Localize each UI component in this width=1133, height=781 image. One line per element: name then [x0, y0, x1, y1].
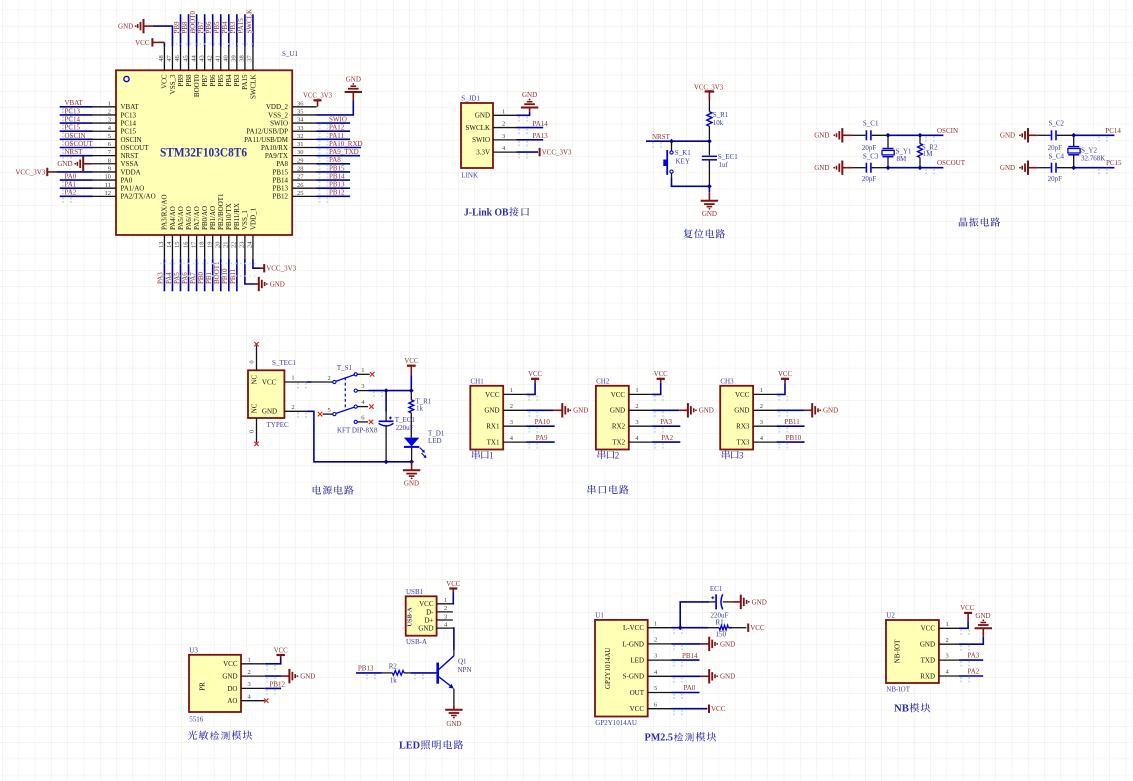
svg-text:1: 1 — [946, 621, 949, 628]
svg-text:USB-A: USB-A — [407, 607, 414, 627]
svg-text:GND: GND — [346, 76, 361, 84]
power VCC at MCU pin 48 — [135, 38, 164, 47]
MCU bottom pin stubs — [164, 235, 253, 259]
connector CH1 body — [470, 386, 503, 450]
svg-text:GND: GND — [720, 673, 735, 681]
MCU left pin numbers 1-12 — [105, 100, 112, 197]
svg-text:VDD_1: VDD_1 — [249, 207, 257, 230]
svg-text:PA9_TXD: PA9_TXD — [329, 148, 359, 156]
svg-text:GND: GND — [610, 407, 625, 415]
MCU top pin numbers 48-37 — [158, 55, 254, 62]
CH3 pin stubs and numbers — [753, 387, 776, 442]
wire OSCOUT — [886, 159, 966, 174]
svg-text:DO: DO — [227, 685, 237, 693]
svg-text:2: 2 — [615, 450, 620, 460]
svg-text:RXD: RXD — [920, 672, 935, 680]
svg-text:VCC: VCC — [630, 705, 645, 713]
wire TEC1 GND pin 2 down to bottom rail — [284, 404, 411, 462]
MCU bottom pin names (rotated) — [161, 193, 258, 230]
wire + net label PB10 (CH3 pin 4) — [776, 434, 804, 449]
power VCC_3V3 at MCU pin 36 — [303, 93, 333, 107]
svg-text:2: 2 — [444, 605, 447, 612]
svg-text:PC14: PC14 — [1105, 127, 1121, 135]
svg-text:LINK: LINK — [461, 172, 478, 180]
svg-text:D+: D+ — [424, 616, 433, 624]
svg-text:SWCLK: SWCLK — [466, 124, 491, 132]
svg-text:R2: R2 — [389, 663, 398, 671]
svg-text:GND: GND — [522, 91, 537, 99]
svg-text:VCC: VCC — [419, 600, 434, 608]
svg-text:3: 3 — [510, 419, 513, 426]
wire + net label PA4 (MCU pin 14) — [165, 259, 173, 292]
svg-text:VCC_3V3: VCC_3V3 — [303, 93, 333, 100]
svg-text:2: 2 — [502, 121, 505, 128]
wire + net label BOOT0 (MCU pin 44) — [189, 10, 197, 46]
svg-text:PA4: PA4 — [165, 272, 173, 284]
svg-text:10k: 10k — [713, 119, 724, 127]
USB1 pin stubs and numbers — [437, 597, 453, 628]
svg-text:PA12: PA12 — [329, 124, 345, 132]
svg-text:PA9/TX: PA9/TX — [265, 152, 288, 160]
svg-text:PA0: PA0 — [121, 176, 133, 184]
ground at J-Link pin 1 — [517, 91, 539, 122]
svg-text:S_C1: S_C1 — [863, 119, 879, 127]
svg-text:GND: GND — [720, 640, 735, 648]
component U3 photoresistor module body — [189, 655, 241, 712]
svg-text:GND: GND — [823, 407, 838, 415]
svg-text:TXD: TXD — [921, 657, 935, 665]
wire NRST net — [646, 133, 712, 148]
svg-text:NB: NB — [894, 703, 910, 715]
svg-text:T_EC1: T_EC1 — [395, 416, 416, 424]
svg-text:PC14: PC14 — [121, 119, 137, 127]
wire + net label OSCOUT (MCU pin 6) — [60, 140, 94, 154]
svg-text:LED: LED — [399, 740, 420, 752]
wire + net label PC13 (MCU pin 2) — [60, 107, 93, 121]
wire + net label PC14 (MCU pin 3) — [60, 115, 93, 129]
svg-text:NB-IOT: NB-IOT — [894, 639, 902, 663]
svg-text:PA5/AO: PA5/AO — [177, 206, 185, 230]
svg-text:3: 3 — [654, 653, 657, 660]
resistor S_R2 1M — [918, 133, 938, 170]
svg-text:PB11/RX: PB11/RX — [233, 203, 241, 230]
wire + net label PB12 (MCU pin 25) — [317, 189, 351, 203]
wire + net label PA2 (CH2 pin 4) — [652, 434, 680, 449]
svg-text:GND: GND — [752, 598, 767, 606]
svg-text:PB13: PB13 — [329, 181, 345, 189]
svg-text:D-: D- — [426, 608, 434, 616]
svg-text:GND: GND — [814, 164, 829, 172]
wire + net label PB12 (U3 pin 3 DO) — [265, 681, 286, 695]
wire USB1 pin 4 to Q1 collector — [453, 628, 454, 650]
wire + net label PA3 (CH2 pin 3) — [652, 418, 680, 433]
svg-text:S_R1: S_R1 — [713, 111, 729, 119]
switch T_S1 KFT DIP-8X8 — [312, 364, 370, 423]
ground at U2 pin 2 — [959, 612, 992, 650]
svg-text:GP2Y1014AU: GP2Y1014AU — [604, 647, 612, 689]
svg-text:RX1: RX1 — [486, 423, 500, 431]
ground at U3 pin 2 — [265, 669, 316, 683]
svg-text:T_S1: T_S1 — [337, 364, 353, 372]
wire + net label VBAT (MCU pin 1) — [60, 99, 93, 113]
svg-text:PA5: PA5 — [173, 272, 181, 284]
svg-text:GND: GND — [475, 112, 490, 120]
svg-text:OSCIN: OSCIN — [65, 132, 86, 140]
ground (crystal C3) — [814, 161, 852, 175]
svg-text:S_TEC1: S_TEC1 — [272, 359, 297, 367]
component U2 NB-IOT body — [886, 620, 939, 683]
wire PC14 — [1071, 127, 1121, 142]
connector S_TEC1 TYPEC body — [248, 370, 284, 418]
wire + net label PB11 (CH3 pin 3) — [776, 418, 804, 433]
svg-text:PB14: PB14 — [329, 172, 345, 180]
svg-text:1: 1 — [248, 657, 251, 664]
svg-text:PC15: PC15 — [65, 124, 81, 132]
svg-text:CH3: CH3 — [720, 378, 734, 386]
svg-text:PB0/AO: PB0/AO — [201, 206, 209, 230]
svg-text:OSCOUT: OSCOUT — [65, 140, 94, 148]
CH2 pin stubs and numbers — [629, 387, 652, 442]
svg-text:1k: 1k — [416, 404, 424, 412]
svg-text:VBAT: VBAT — [65, 99, 84, 107]
power VCC at U3 pin 1 — [265, 647, 288, 670]
svg-text:2: 2 — [760, 403, 763, 410]
wire + net label PA5 (MCU pin 15) — [173, 259, 181, 292]
svg-text:2: 2 — [510, 403, 513, 410]
ground (power circuit) — [403, 462, 420, 488]
svg-text:VCC: VCC — [274, 647, 288, 654]
ground at CH2 pin 2 — [652, 403, 714, 417]
ground at MCU pin 47 VSS_3 — [118, 19, 172, 47]
title light detection module — [188, 731, 197, 740]
svg-text:VCC: VCC — [735, 391, 750, 399]
capacitor T_EC1 220uF polarized — [379, 391, 416, 465]
svg-text:S_C4: S_C4 — [1049, 152, 1065, 160]
svg-text:GND: GND — [418, 625, 433, 633]
svg-text:VSS_3: VSS_3 — [169, 74, 177, 94]
svg-text:EC1: EC1 — [710, 585, 723, 593]
wire R1 to NRST node — [708, 126, 710, 141]
power VCC at R1 — [748, 624, 765, 633]
wire + net label PB10 (MCU pin 21) — [221, 259, 229, 292]
svg-text:PA6/AO: PA6/AO — [185, 206, 193, 230]
power VCC at U2 pin 1 — [959, 605, 975, 635]
connector S_JD1 J-Link body — [461, 103, 493, 168]
MCU left pin stubs — [93, 107, 116, 197]
capacitor S_C2 20pF — [1038, 119, 1074, 152]
svg-text:PC13: PC13 — [121, 111, 137, 119]
svg-text:VCC: VCC — [161, 74, 169, 89]
wire + net label PA3 (MCU pin 13) — [157, 259, 165, 292]
svg-text:NRST: NRST — [121, 152, 140, 160]
wire + net label PA1 (MCU pin 11) — [60, 181, 93, 195]
svg-text:3: 3 — [760, 419, 763, 426]
svg-text:NB-IOT: NB-IOT — [886, 686, 910, 694]
resistor R1 150 — [709, 619, 747, 639]
svg-text:VCC: VCC — [711, 705, 726, 713]
svg-text:PC15: PC15 — [121, 128, 137, 136]
ground (reset) — [701, 184, 718, 218]
svg-text:20pF: 20pF — [1048, 175, 1063, 183]
title LED lighting circuit — [399, 740, 463, 752]
resistor R2 1k on base wire + net label PB13 — [356, 663, 436, 685]
wire + net label PA0 (U1 pin 5) — [672, 684, 700, 699]
LED arrows — [420, 448, 427, 458]
svg-text:PB3: PB3 — [233, 74, 241, 87]
svg-text:PR: PR — [199, 682, 207, 691]
svg-text:PB11: PB11 — [785, 418, 801, 426]
svg-text:PB12: PB12 — [272, 193, 288, 201]
svg-text:5: 5 — [654, 685, 657, 692]
svg-text:RX2: RX2 — [612, 423, 626, 431]
label serial port 1 — [472, 450, 494, 460]
svg-text:0: 0 — [249, 360, 256, 363]
svg-text:PA2/TX/AO: PA2/TX/AO — [121, 193, 156, 201]
capacitor S_C1 20pF — [852, 119, 888, 152]
title J-Link OB interface — [464, 207, 529, 219]
wire switch to ground node — [672, 178, 710, 186]
svg-text:PA8: PA8 — [276, 160, 288, 168]
capacitor EC1 220uF polarized — [709, 585, 732, 619]
svg-text:PB13: PB13 — [358, 665, 374, 673]
svg-text:PA12/USB/DP: PA12/USB/DP — [246, 128, 288, 136]
power VCC_3V3 at MCU pin 9 VDDA — [15, 168, 93, 177]
svg-text:VCC: VCC — [960, 605, 974, 612]
power VCC at USB1 pin 1 — [446, 581, 460, 604]
svg-text:GND: GND — [118, 23, 133, 31]
svg-text:PA3/RX/AO: PA3/RX/AO — [161, 194, 169, 230]
svg-text:PA10/RX: PA10/RX — [261, 144, 288, 152]
power VCC (power circuit) — [404, 358, 418, 391]
J-Link pin stubs and numbers — [493, 108, 517, 152]
svg-text:1: 1 — [291, 375, 294, 382]
svg-text:GND: GND — [814, 132, 829, 140]
svg-text:PA1: PA1 — [65, 181, 77, 189]
svg-text:PB4: PB4 — [225, 74, 233, 87]
capacitor S_EC1 1uf — [702, 141, 738, 186]
no-connect at U3 pin 4 AO — [264, 699, 268, 703]
svg-text:PB9: PB9 — [177, 74, 185, 87]
svg-text:S_K1: S_K1 — [675, 149, 691, 157]
svg-text:GND: GND — [1000, 132, 1015, 140]
wire + net label PB14 (MCU pin 27) — [317, 172, 351, 186]
svg-text:PA3: PA3 — [660, 418, 672, 426]
svg-text:GND: GND — [702, 210, 717, 218]
svg-text:PC15: PC15 — [1106, 159, 1122, 167]
svg-text:PB12: PB12 — [329, 189, 345, 197]
svg-text:PB7: PB7 — [201, 74, 209, 87]
svg-text:USB1: USB1 — [406, 588, 424, 596]
wire OSCIN — [886, 127, 958, 142]
svg-text:VCC: VCC — [262, 378, 277, 386]
svg-text:SWCLK: SWCLK — [245, 9, 253, 34]
ground at MCU pin 35 VSS_2 — [317, 76, 363, 115]
power VCC at U1 pin 6 — [672, 705, 726, 716]
power VCC at CH3 pin 1 — [776, 371, 792, 401]
ground (crystal C2) — [1000, 128, 1038, 142]
svg-text:3: 3 — [361, 383, 364, 390]
svg-text:NPN: NPN — [458, 666, 472, 674]
svg-text:GND: GND — [57, 160, 72, 168]
wire VCC_3V3 to R1 — [708, 100, 710, 112]
svg-text:GND: GND — [262, 408, 277, 416]
svg-text:PA8: PA8 — [329, 156, 341, 164]
svg-text:PA0: PA0 — [65, 172, 77, 180]
svg-text:1: 1 — [510, 387, 513, 394]
wire + net label PA15 (MCU pin 38) — [237, 14, 245, 46]
svg-text:VCC_3V3: VCC_3V3 — [15, 168, 45, 176]
svg-text:PA10: PA10 — [535, 418, 551, 426]
capacitor S_C4 20pF — [1038, 152, 1074, 183]
no-ERC marks on switch pins — [318, 372, 375, 424]
svg-text:3: 3 — [739, 450, 744, 460]
svg-text:GND: GND — [300, 673, 315, 681]
svg-text:J-Link OB: J-Link OB — [464, 207, 509, 219]
svg-text:2: 2 — [654, 637, 657, 644]
svg-text:S_Y2: S_Y2 — [1081, 147, 1097, 155]
svg-text:2: 2 — [291, 404, 294, 411]
CH1 pin stubs and numbers — [503, 387, 526, 442]
ground (crystal C1) — [814, 128, 852, 142]
svg-text:PA7: PA7 — [189, 272, 197, 284]
svg-text:OUT: OUT — [630, 689, 645, 697]
svg-text:VSSA: VSSA — [121, 160, 139, 168]
MCU right pin numbers 36-25 — [297, 100, 304, 197]
svg-text:S-GND: S-GND — [623, 673, 644, 681]
svg-text:VCC: VCC — [223, 660, 238, 668]
svg-text:VCC: VCC — [485, 391, 500, 399]
svg-text:PB0: PB0 — [197, 271, 205, 284]
wire + net label PA3 (U2 pin 3) — [959, 652, 984, 667]
svg-text:VCC: VCC — [750, 624, 765, 632]
svg-text:OSCOUT: OSCOUT — [121, 144, 150, 152]
svg-text:20pF: 20pF — [862, 175, 877, 183]
power VCC at CH2 pin 1 — [652, 371, 668, 401]
svg-text:GP2Y1014AU: GP2Y1014AU — [595, 719, 637, 727]
wire switch pin 3 to VCC column — [369, 388, 414, 397]
svg-text:PB14: PB14 — [272, 176, 288, 184]
svg-text:LED: LED — [428, 437, 442, 445]
MCU U1 STM32F103C8T6 body — [116, 70, 292, 235]
MCU right pin names — [244, 103, 289, 201]
svg-text:S_U1: S_U1 — [282, 50, 298, 58]
svg-text:TX2: TX2 — [612, 439, 625, 447]
svg-text:OSCOUT: OSCOUT — [937, 159, 966, 167]
svg-text:PA6: PA6 — [181, 272, 189, 284]
title serial circuit — [588, 485, 596, 494]
capacitor S_C3 20pF — [852, 152, 888, 183]
svg-text:3.3V: 3.3V — [476, 149, 490, 157]
svg-text:PB8: PB8 — [185, 74, 193, 87]
svg-text:SWCLK: SWCLK — [249, 75, 257, 100]
svg-text:1: 1 — [635, 387, 638, 394]
svg-text:PA4/AO: PA4/AO — [169, 206, 177, 230]
wire + net label PA2 (U2 pin 4) — [959, 668, 984, 683]
MCU top pin names (rotated) — [161, 74, 258, 99]
svg-text:150: 150 — [716, 631, 727, 639]
wire + net label BOOT1 (MCU pin 20) — [213, 259, 221, 292]
svg-text:PA14: PA14 — [533, 120, 549, 128]
svg-text:VCC_3V3: VCC_3V3 — [542, 149, 572, 157]
MCU left pin names — [121, 103, 156, 201]
U1 pin stubs and numbers — [648, 620, 672, 708]
wire TEC1 VCC pin 1 to switch — [284, 375, 311, 389]
wire + net label PB8 (MCU pin 45) — [181, 14, 189, 46]
svg-text:GND: GND — [734, 407, 749, 415]
title NB module — [894, 703, 930, 715]
svg-text:PB14: PB14 — [682, 652, 698, 660]
svg-text:PB1: PB1 — [205, 271, 213, 284]
ground at MCU pin 23 VSS_1 — [245, 259, 285, 292]
svg-text:VSS_1: VSS_1 — [241, 210, 249, 230]
svg-text:PB6: PB6 — [209, 74, 217, 87]
svg-text:GND: GND — [484, 407, 499, 415]
svg-text:3: 3 — [635, 419, 638, 426]
svg-text:220uF: 220uF — [396, 424, 414, 432]
svg-text:GND: GND — [975, 612, 990, 620]
svg-text:0: 0 — [249, 430, 256, 433]
svg-text:S_C3: S_C3 — [863, 152, 879, 160]
svg-text:3: 3 — [248, 681, 251, 688]
power VCC at CH1 pin 1 — [527, 371, 543, 401]
ground at U1 pin 2 — [672, 637, 736, 651]
wire + net label PB7 (MCU pin 43) — [197, 14, 205, 46]
svg-text:GND: GND — [222, 673, 237, 681]
svg-text:RX3: RX3 — [736, 423, 750, 431]
svg-text:PA13: PA13 — [533, 132, 549, 140]
ground (LED circuit) — [445, 705, 462, 728]
svg-text:STM32F103C8T6: STM32F103C8T6 — [160, 145, 247, 159]
svg-text:PM2.5: PM2.5 — [645, 732, 674, 744]
ground at U1 pin 4 — [672, 669, 736, 683]
svg-text:GND: GND — [1000, 164, 1015, 172]
wire + net label PA0 (MCU pin 10) — [60, 172, 93, 186]
svg-text:PA2: PA2 — [968, 668, 980, 676]
wire + net label PB0 (MCU pin 18) — [197, 259, 205, 292]
power VCC_3V3 at J-Link pin 4 — [517, 148, 573, 159]
svg-text:LED: LED — [630, 657, 644, 665]
svg-text:VCC: VCC — [404, 358, 418, 365]
svg-text:PA10_RXD: PA10_RXD — [329, 140, 363, 148]
svg-text:S_JD1: S_JD1 — [461, 95, 480, 103]
svg-text:32.768K: 32.768K — [1081, 155, 1105, 163]
U2 pin stubs and numbers — [939, 621, 959, 676]
MCU top pin stubs — [164, 47, 253, 71]
svg-text:GND: GND — [920, 641, 935, 649]
svg-text:VCC: VCC — [135, 39, 150, 47]
svg-text:1: 1 — [361, 367, 364, 374]
svg-text:KFT DIP-8X8: KFT DIP-8X8 — [337, 426, 378, 434]
crystal S_Y2 32.768K — [1068, 135, 1105, 167]
TEC1 top NC pin with no-ERC — [249, 342, 259, 370]
svg-text:U3: U3 — [189, 647, 198, 655]
label serial port 2 — [598, 450, 620, 460]
wire + net label PA9 (CH1 pin 4) — [527, 434, 555, 449]
svg-text:PA11/USB/DM: PA11/USB/DM — [244, 136, 289, 144]
svg-text:1: 1 — [489, 450, 494, 460]
svg-text:2: 2 — [635, 403, 638, 410]
svg-text:OSCIN: OSCIN — [937, 127, 958, 135]
component U1 GP2Y1014AU body — [595, 620, 648, 717]
svg-text:PB2/BOOT1: PB2/BOOT1 — [217, 193, 225, 230]
svg-text:CH2: CH2 — [596, 378, 610, 386]
svg-text:PB1/AO: PB1/AO — [209, 206, 217, 230]
svg-text:VCC: VCC — [654, 371, 668, 378]
power VCC_3V3 (reset) — [694, 85, 724, 101]
wire + net label PA2 (MCU pin 12) — [60, 189, 93, 203]
wire + net label PB1 (MCU pin 19) — [205, 259, 213, 292]
wire + net label PA7 (MCU pin 17) — [189, 259, 197, 292]
